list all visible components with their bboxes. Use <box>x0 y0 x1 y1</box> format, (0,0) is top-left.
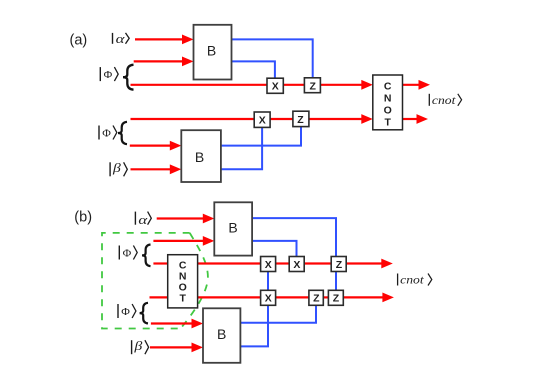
wire |beta> into Bbot (b) row6 <box>150 343 203 353</box>
gate X1 row3 (b) <box>261 257 276 272</box>
blue wire B2 out2 to X (a) <box>221 126 262 169</box>
gate X2 row3 (b) <box>289 257 304 272</box>
svg-text:B: B <box>217 326 226 342</box>
gate X row4 (a) <box>254 112 270 127</box>
gate X row4 (b) <box>261 290 276 305</box>
svg-text:X: X <box>259 114 266 126</box>
svg-text:B: B <box>207 43 216 59</box>
ket |Phi> upper pair (a) <box>100 67 118 81</box>
blue wire B2 out1 to Z (a) <box>221 126 301 145</box>
wire Phi2-bottom into B2 (a) row5 <box>130 141 182 151</box>
svg-text:(a): (a) <box>70 32 88 48</box>
svg-text:T: T <box>384 116 391 128</box>
blue wire B1 out1 to Z (a) <box>232 39 313 78</box>
ket |Phi> lower pair (b) <box>118 304 136 318</box>
wire Z1 to Z2 segment (b) row4 <box>322 296 329 298</box>
wire |alpha> into Btop (b) row1 <box>157 214 215 224</box>
blue wire Btop out1 to Z row3 (b) <box>252 218 336 256</box>
wire X1 to X2 segment (b) row3 <box>275 262 291 264</box>
wire Phi1-top into Btop (b) row2 <box>153 236 214 246</box>
wire Z to CNOT with arrow (a) row3 <box>320 80 373 90</box>
Bell measurement box B1 (a) <box>194 25 232 80</box>
svg-text:N: N <box>384 93 392 105</box>
svg-text:B: B <box>195 149 204 165</box>
brace for lower |Phi> pair (b) <box>140 303 148 324</box>
svg-text:Φ: Φ <box>123 249 132 260</box>
blue wire Bbot out1 to Z1 row4 (b) <box>240 305 316 323</box>
svg-text:Φ: Φ <box>104 70 113 81</box>
svg-text:C: C <box>384 81 392 93</box>
blue wire Btop out2 to X2 row3 (b) <box>252 241 296 257</box>
brace for upper |Phi> pair (b) <box>142 245 151 267</box>
svg-text:Z: Z <box>309 81 316 93</box>
svg-text:α: α <box>116 31 126 46</box>
svg-text:O: O <box>384 105 392 117</box>
wire CNOT to X (b) row4 <box>198 296 262 298</box>
svg-text:cnot: cnot <box>432 93 456 107</box>
wire X to Z segment (a) row4 <box>269 118 294 120</box>
brace for upper |Phi> pair (a) <box>123 65 134 90</box>
svg-text:Z: Z <box>333 293 340 305</box>
ket |beta> input (a) <box>110 160 127 176</box>
wire Z to output arrow (b) row3 <box>345 259 393 269</box>
output arrow lower (a) <box>403 114 429 124</box>
ket |alpha> input (b) <box>135 212 151 227</box>
svg-text:(b): (b) <box>74 209 92 225</box>
wire Phi2-bottom into Bbot (b) row5 <box>151 319 203 329</box>
svg-text:Z: Z <box>336 259 343 271</box>
svg-text:Φ: Φ <box>102 129 111 140</box>
green dashed callout outline (b) <box>102 233 190 329</box>
wire X2 to Z segment (b) row3 <box>303 262 332 264</box>
gate Z row4 (a) <box>293 111 309 126</box>
svg-text:Φ: Φ <box>121 307 130 318</box>
svg-text:β: β <box>133 338 143 353</box>
ket |cnot> output (a) <box>429 93 461 107</box>
output arrow upper (a) <box>403 80 431 90</box>
wire Z2 to output arrow (b) row4 <box>342 293 394 303</box>
wire X to Z1 segment (b) row4 <box>275 296 310 298</box>
svg-text:α: α <box>138 212 148 227</box>
brace for lower |Phi> pair (a) <box>118 122 127 144</box>
svg-text:Z: Z <box>297 114 304 126</box>
svg-text:B: B <box>228 220 237 236</box>
blue wire X row4 to X1 row3 link (b) <box>267 271 269 291</box>
blue wire B1 out2 to X (a) <box>232 61 275 78</box>
ket |Phi> lower pair (a) <box>99 126 117 140</box>
svg-text:cnot: cnot <box>400 273 424 287</box>
green dashed callout curve (b) <box>181 233 208 329</box>
ket |alpha> input (a) <box>113 31 130 46</box>
gate Z row3 (a) <box>304 78 320 93</box>
gate X row3 (a) <box>267 78 283 93</box>
wire Phi1-bottom into CNOT (b) row3 <box>153 262 167 264</box>
gate Z2 row4 (b) <box>328 290 343 305</box>
ket |beta> input (b) <box>132 338 149 354</box>
wire Phi2-top into CNOT (b) row4 <box>150 296 168 298</box>
ket |cnot> output (b) <box>398 273 432 287</box>
wire |beta> into B2 (a) row6 <box>131 164 182 174</box>
gate Z row3 (b) <box>331 257 346 272</box>
svg-text:X: X <box>265 293 272 305</box>
svg-text:X: X <box>272 81 279 93</box>
CNOT box (b) <box>168 255 198 308</box>
wire CNOT to X1 (b) row3 <box>198 262 262 264</box>
gate Z1 row4 (b) <box>309 290 323 305</box>
CNOT box (a) <box>373 75 403 130</box>
blue wire Z row3 to Z2 row4 link (b) <box>335 271 337 291</box>
svg-text:X: X <box>265 259 272 271</box>
Bell measurement box B top (b) <box>214 202 252 255</box>
wire Phi1-bottom to X gate (a) row3 <box>131 84 269 86</box>
ket |Phi> upper pair (b) <box>119 246 137 260</box>
svg-text:Z: Z <box>313 293 320 305</box>
wire Phi1-top into B1 (a) row2 <box>134 57 194 67</box>
wire Z to CNOT with arrow (a) row4 <box>308 114 373 124</box>
blue wire Bbot out2 to X row4 (b) <box>240 305 268 346</box>
Bell measurement box B2 (a) <box>181 130 221 182</box>
wire Phi2-top to X gate (a) row4 <box>131 118 256 120</box>
wire X to Z segment (a) row3 <box>282 84 306 86</box>
wire |alpha> into B1 (a) row1 <box>135 35 194 45</box>
Bell measurement box B bottom (b) <box>203 308 240 363</box>
svg-text:T: T <box>179 293 186 305</box>
svg-text:β: β <box>112 160 122 175</box>
svg-text:X: X <box>293 259 300 271</box>
